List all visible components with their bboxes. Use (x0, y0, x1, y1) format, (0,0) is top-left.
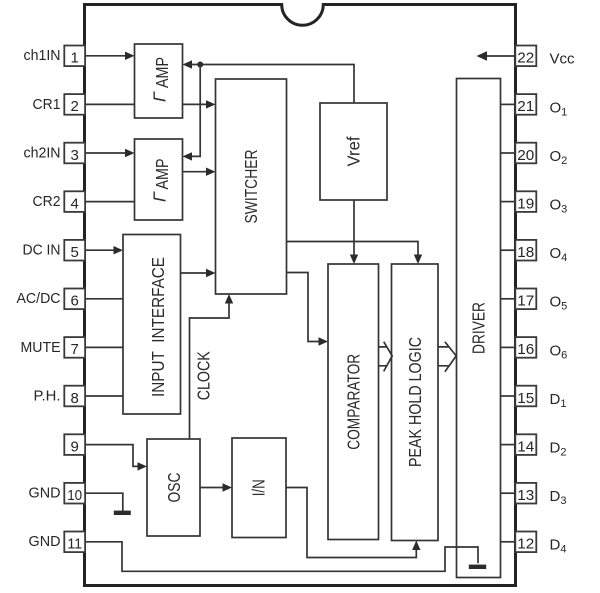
svg-text:18: 18 (517, 244, 534, 261)
pin 17 label O5 (550, 294, 568, 313)
svg-text:O4: O4 (550, 245, 568, 264)
pin 10 box (64, 483, 85, 504)
svg-text:D1: D1 (550, 391, 567, 410)
svg-text:ch2IN: ch2IN (24, 144, 61, 161)
svg-text:CR2: CR2 (33, 193, 61, 210)
svg-text:DC IN: DC IN (23, 242, 61, 259)
pin 6 label AC/DC (17, 290, 61, 307)
pin 17 box (515, 289, 536, 310)
pin 14 box (515, 434, 536, 455)
svg-text:D2: D2 (550, 440, 567, 459)
block Vref (320, 103, 387, 200)
svg-text:21: 21 (517, 98, 534, 115)
svg-text:13: 13 (517, 487, 534, 504)
pin 4 box (64, 191, 85, 212)
pin 2 label CR1 (33, 96, 61, 113)
pin 14 label D2 (550, 440, 567, 459)
bus arrow PEAK HOLD LOGIC to DRIVER (438, 342, 456, 372)
bus arrow COMPARATOR to PEAK HOLD LOGIC (379, 342, 393, 372)
pin 19 box (515, 191, 536, 212)
net label CLOCK (194, 351, 214, 400)
pin 20 label O2 (550, 148, 568, 167)
wire pin3 to AMP2 input (85, 149, 135, 157)
pin 1 box (64, 46, 85, 67)
pin 20 box (515, 143, 536, 164)
pin 16 box (515, 337, 536, 358)
svg-text:MUTE: MUTE (21, 339, 61, 356)
wire INPUT INTERFACE output to SWITCHER (181, 269, 216, 277)
svg-text:O5: O5 (550, 294, 568, 313)
wire AMP1 output to SWITCHER (183, 100, 216, 108)
wire Vref feedback to AMP1 (183, 60, 355, 103)
svg-text:2: 2 (71, 98, 79, 115)
wire DRIVER to pin12 (501, 541, 516, 543)
wire Vref output to COMPARATOR top (350, 200, 358, 264)
pin 15 box (515, 386, 536, 407)
svg-text:Γ: Γ (150, 91, 170, 102)
wire DRIVER to pin13 (501, 492, 516, 494)
svg-text:1: 1 (71, 50, 79, 67)
svg-text:20: 20 (517, 147, 534, 164)
wire pin11 GND to ground (85, 542, 478, 572)
svg-text:Γ: Γ (150, 191, 170, 202)
svg-text:CR1: CR1 (33, 96, 61, 113)
pin 2 box (64, 94, 85, 115)
pin 22 label Vcc (550, 51, 575, 68)
wire pin6 AC/DC to INPUT INTERFACE (85, 298, 123, 300)
svg-text:22: 22 (517, 50, 534, 67)
svg-text:9: 9 (71, 438, 79, 455)
pin 12 box (515, 532, 536, 553)
wire feedback node to AMP2 (183, 65, 201, 161)
svg-text:AC/DC: AC/DC (17, 290, 61, 307)
pin 10 label GND (29, 485, 61, 502)
pin 18 box (515, 240, 536, 261)
svg-text:Vcc: Vcc (550, 51, 575, 68)
wire DRIVER to pin16 (501, 346, 516, 348)
svg-text:O1: O1 (550, 99, 568, 118)
wire CLOCK from OSC to SWITCHER bottom (190, 294, 234, 439)
svg-text:5: 5 (71, 244, 79, 261)
wire pin22 Vcc supply arrow (477, 51, 516, 60)
wire pin4 CR2 to AMP2 (85, 201, 135, 203)
pin 11 label GND (29, 533, 61, 550)
svg-text:COMPARATOR: COMPARATOR (343, 354, 363, 450)
pin 16 label O6 (550, 342, 568, 361)
svg-text:O3: O3 (550, 197, 568, 216)
pin 18 label O4 (550, 245, 568, 264)
wire DRIVER to pin18 (501, 249, 516, 251)
block PEAK HOLD LOGIC (392, 264, 439, 541)
svg-text:P.H.: P.H. (34, 387, 61, 404)
svg-text:PEAK HOLD LOGIC: PEAK HOLD LOGIC (405, 337, 425, 467)
wire pin9 to OSC input (85, 445, 147, 471)
pin 6 box (64, 289, 85, 310)
pin 3 label ch2IN (24, 144, 61, 161)
pin 13 box (515, 483, 536, 504)
svg-text:10: 10 (67, 487, 82, 504)
junction dot feedback node (197, 62, 203, 68)
wire DRIVER to pin14 (501, 444, 516, 446)
svg-text:AMP: AMP (152, 57, 172, 88)
amplifier block AMP2 (135, 139, 183, 220)
svg-text:7: 7 (71, 341, 79, 358)
svg-text:6: 6 (71, 293, 79, 310)
pin 11 box (64, 532, 85, 553)
pin 12 label D4 (550, 537, 567, 556)
svg-text:D4: D4 (550, 537, 567, 556)
wire DRIVER to pin19 (501, 201, 516, 203)
svg-text:14: 14 (517, 438, 534, 455)
wire pin5 DC IN to INPUT INTERFACE (85, 246, 123, 254)
amplifier block AMP1 (135, 44, 183, 118)
wire DRIVER to pin17 (501, 298, 516, 300)
wire pin7 MUTE to INPUT INTERFACE (85, 346, 123, 348)
wire pin10 GND to ground (85, 493, 123, 511)
svg-text:11: 11 (67, 536, 82, 553)
wire SWITCHER output to COMPARATOR left (287, 273, 329, 346)
block COMPARATOR (328, 264, 379, 540)
pin 9 box (64, 434, 85, 455)
pin 8 box (64, 386, 85, 407)
svg-text:INPUT INTERFACE: INPUT INTERFACE (148, 257, 168, 397)
svg-text:AMP: AMP (152, 159, 172, 190)
svg-text:12: 12 (517, 536, 534, 553)
wire DRIVER to pin20 (501, 152, 516, 154)
wire DRIVER to pin15 (501, 395, 516, 397)
pin 15 label D1 (550, 391, 567, 410)
IC body outline with index notch (85, 5, 516, 586)
pin 7 label MUTE (21, 339, 61, 356)
pin 5 box (64, 240, 85, 261)
pin 5 label DC IN (23, 242, 61, 259)
pin 21 box (515, 94, 536, 115)
svg-text:O6: O6 (550, 342, 568, 361)
svg-text:ch1IN: ch1IN (24, 47, 61, 64)
pin 19 label O3 (550, 197, 568, 216)
block DRIVER (457, 79, 501, 578)
svg-text:3: 3 (71, 147, 79, 164)
pin 1 label ch1IN (24, 47, 61, 64)
svg-text:16: 16 (517, 341, 534, 358)
svg-text:8: 8 (71, 390, 79, 407)
svg-text:SWITCHER: SWITCHER (241, 150, 261, 224)
svg-text:O2: O2 (550, 148, 568, 167)
wire pin8 P.H. to INPUT INTERFACE (85, 395, 123, 397)
block SWITCHER (216, 79, 287, 294)
pin 3 box (64, 143, 85, 164)
svg-text:D3: D3 (550, 488, 567, 507)
svg-text:GND: GND (29, 485, 61, 502)
block I/N (232, 438, 286, 538)
svg-text:4: 4 (71, 195, 79, 212)
block INPUT INTERFACE (123, 235, 181, 415)
pin 22 box (515, 46, 536, 67)
svg-text:CLOCK: CLOCK (194, 351, 214, 400)
wire OSC to I/N (200, 483, 232, 491)
svg-text:15: 15 (517, 390, 534, 407)
wire pin2 CR1 to AMP1 (85, 103, 135, 105)
svg-text:Vref: Vref (344, 136, 364, 166)
block OSC (147, 439, 200, 536)
pin 7 box (64, 337, 85, 358)
pin 8 label P.H. (34, 387, 61, 404)
svg-text:DRIVER: DRIVER (469, 302, 489, 354)
wire pin1 to AMP1 input (85, 52, 135, 60)
wire I/N output to PEAK HOLD LOGIC bottom (286, 488, 421, 558)
wire AMP2 output to SWITCHER (183, 168, 216, 176)
wire SWITCHER output to PEAK HOLD LOGIC top (287, 242, 423, 265)
pin 13 label D3 (550, 488, 567, 507)
svg-text:GND: GND (29, 533, 61, 550)
pin 4 label CR2 (33, 193, 61, 210)
svg-text:19: 19 (517, 195, 534, 212)
pin 21 label O1 (550, 99, 568, 118)
ground symbol at pin10 (114, 511, 131, 515)
wire DRIVER to pin21 (501, 103, 516, 105)
svg-text:OSC: OSC (164, 473, 184, 503)
ground symbol at bottom right (469, 565, 486, 569)
svg-text:I/N: I/N (249, 479, 269, 496)
svg-text:17: 17 (517, 293, 534, 310)
